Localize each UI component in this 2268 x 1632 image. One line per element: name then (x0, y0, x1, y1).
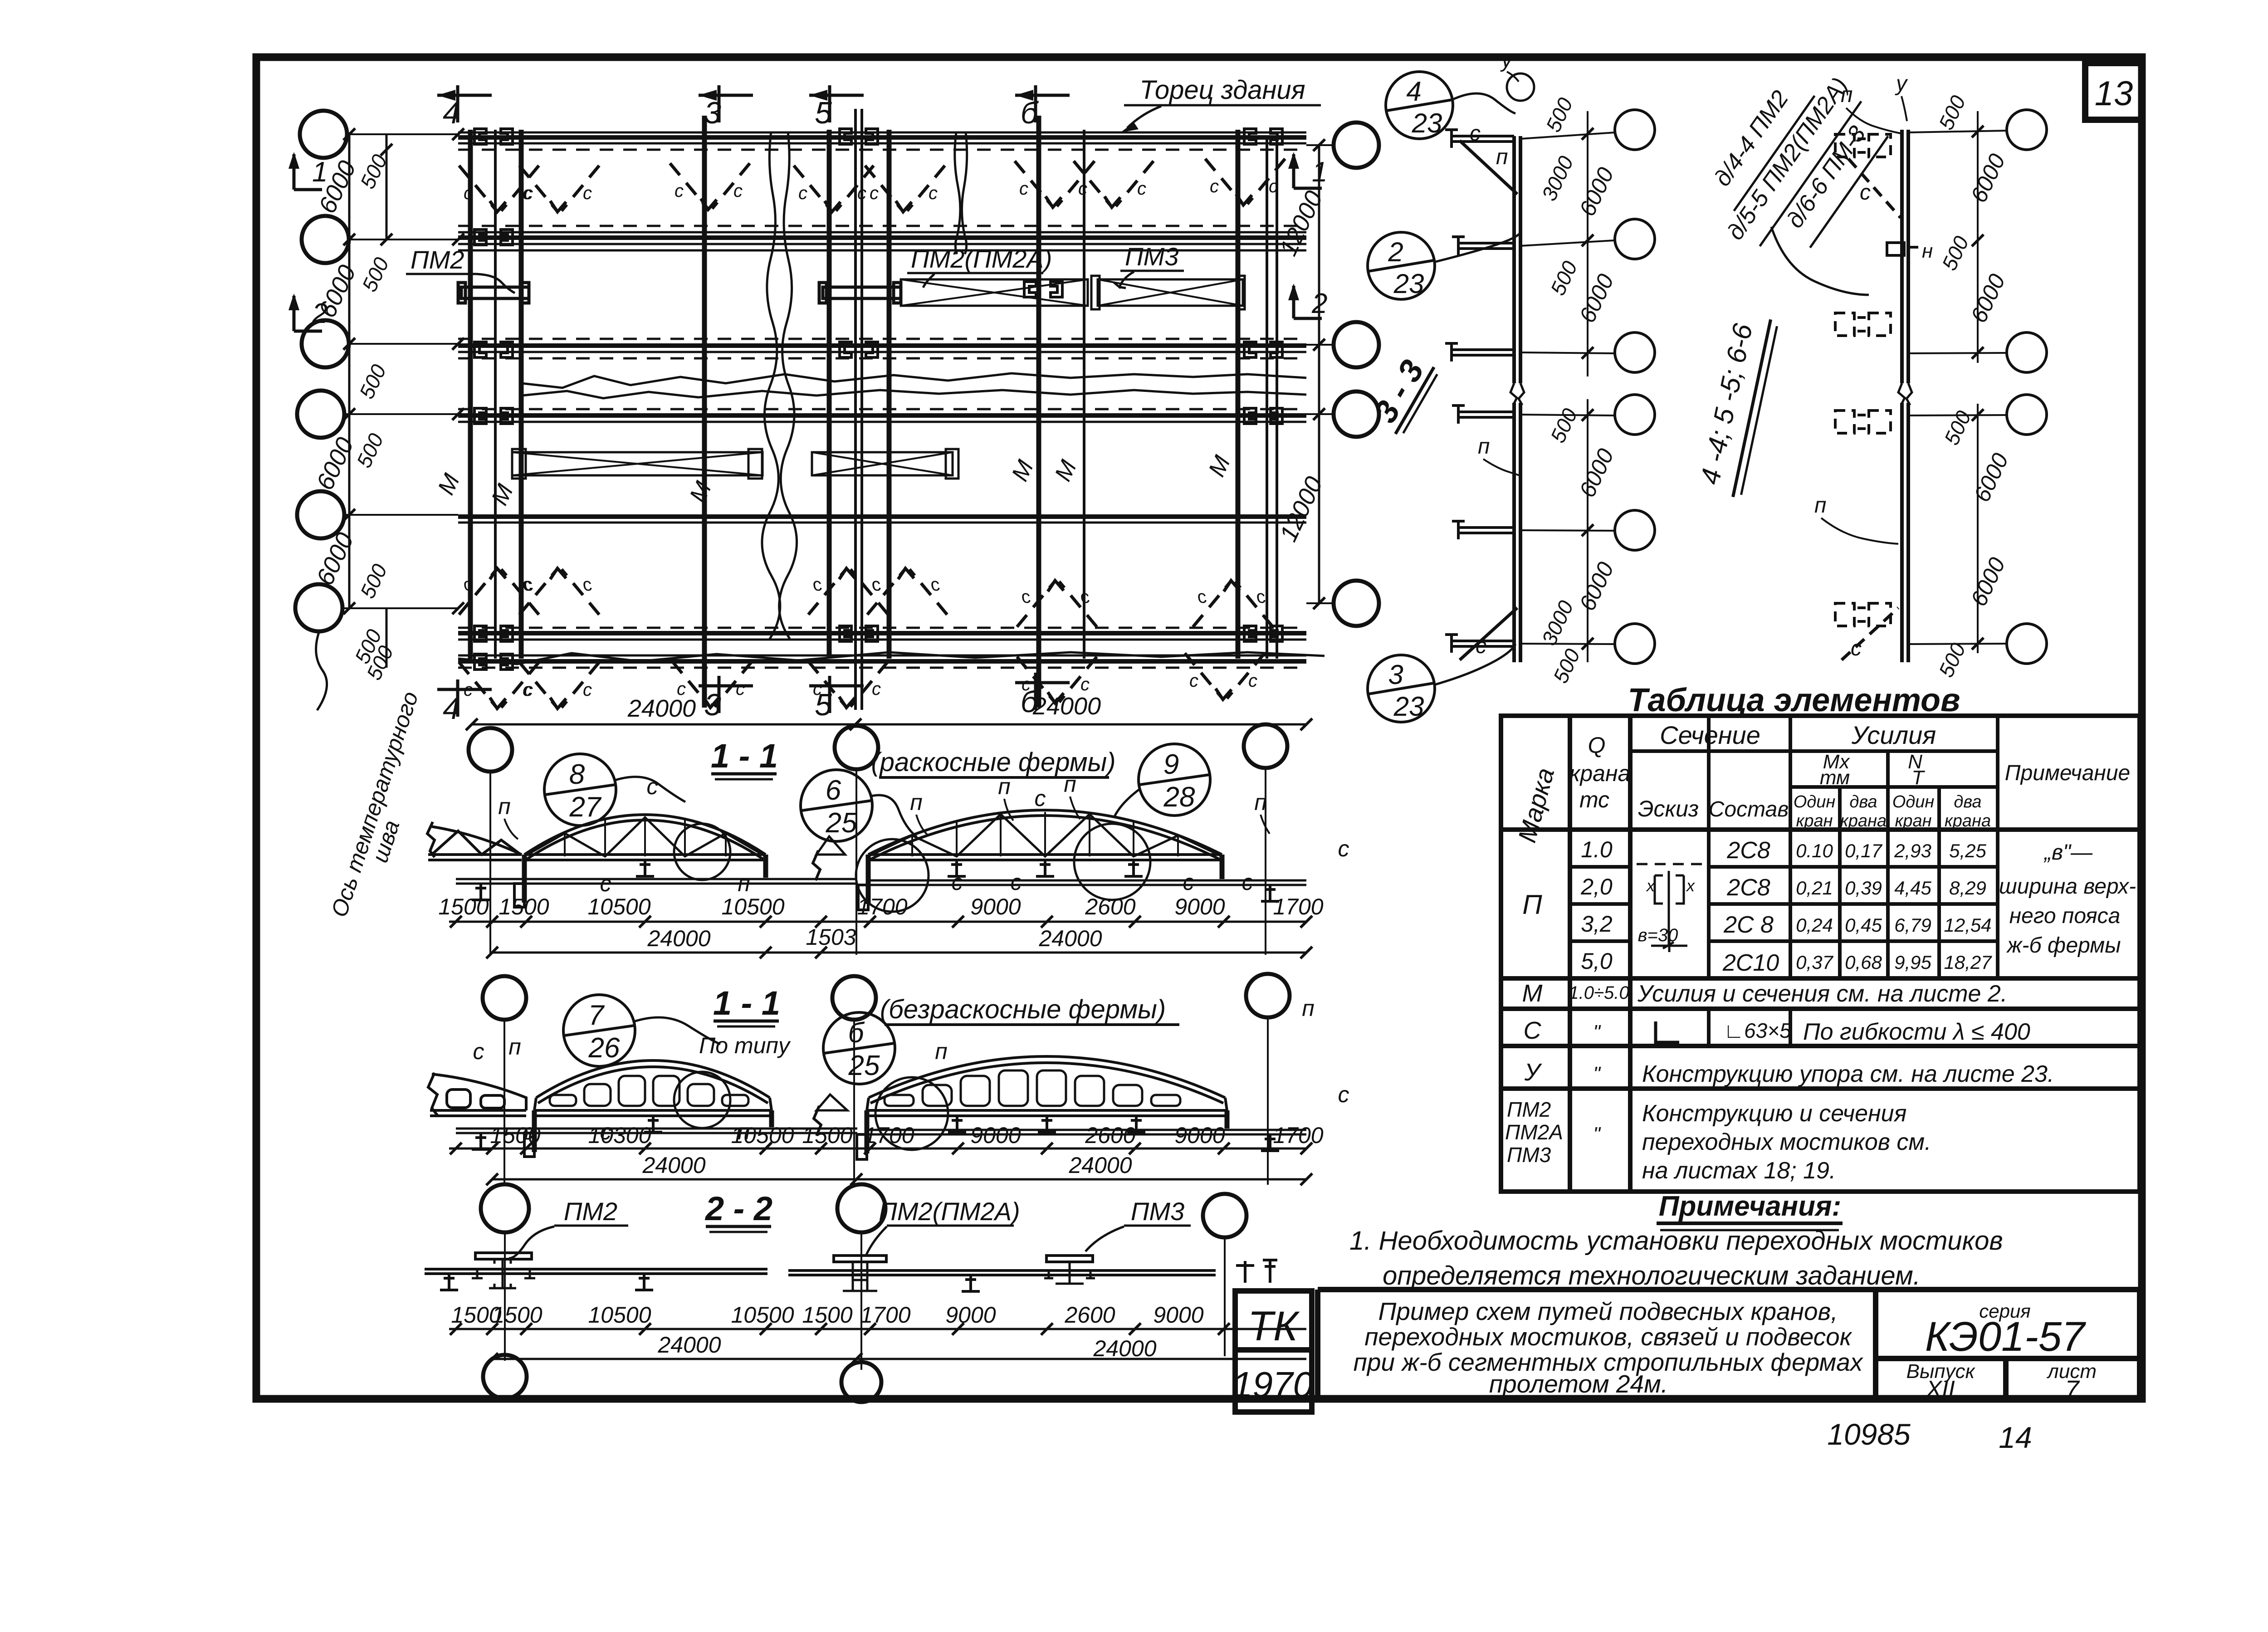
svg-text:2С 8: 2С 8 (1723, 912, 1774, 938)
svg-text:с: с (473, 1039, 484, 1064)
svg-text:п: п (1064, 772, 1076, 797)
svg-text:Конструкцию упора см. на листе: Конструкцию упора см. на листе 23. (1642, 1061, 2054, 1087)
svg-text:2: 2 (1388, 237, 1403, 267)
svg-text:4,45: 4,45 (1894, 877, 1931, 899)
svg-text:крана: крана (1569, 761, 1631, 786)
svg-text:ПМ2: ПМ2 (411, 245, 464, 274)
svg-text:28: 28 (1163, 782, 1195, 813)
svg-text:10500: 10500 (731, 1302, 794, 1328)
svg-text:б: б (848, 1017, 865, 1049)
svg-text:2С8: 2С8 (1726, 875, 1770, 901)
svg-text:1500: 1500 (802, 1302, 852, 1328)
svg-text:2,93: 2,93 (1894, 840, 1931, 861)
svg-text:ПМ3: ПМ3 (1131, 1197, 1184, 1226)
svg-text:9000: 9000 (970, 894, 1021, 919)
svg-text:с: с (1851, 636, 1862, 660)
svg-text:Примечание: Примечание (2005, 761, 2130, 785)
svg-text:п: п (498, 794, 511, 819)
svg-text:1.0÷5.0: 1.0÷5.0 (1569, 983, 1629, 1003)
svg-text:6: 6 (826, 775, 841, 806)
svg-text:с: с (1183, 870, 1194, 895)
svg-text:х: х (1646, 876, 1656, 895)
svg-text:два: два (1954, 792, 1981, 811)
svg-text:10500: 10500 (587, 894, 650, 919)
svg-text:Примечания:: Примечания: (1659, 1191, 1841, 1222)
svg-text:13: 13 (2095, 74, 2133, 113)
svg-text:п: п (1302, 996, 1315, 1021)
svg-text:9: 9 (1163, 749, 1179, 780)
svg-text:пролетом 24м.: пролетом 24м. (1489, 1370, 1668, 1398)
svg-text:Таблица элементов: Таблица элементов (1628, 682, 1960, 718)
svg-text:с: с (1011, 870, 1022, 895)
svg-text:с: с (1242, 870, 1253, 895)
svg-text:тс: тс (1579, 787, 1609, 812)
svg-text:с: с (1860, 181, 1871, 205)
svg-text:Q: Q (1588, 733, 1606, 758)
svg-text:24000: 24000 (1093, 1336, 1156, 1361)
svg-text:п: п (1254, 790, 1267, 815)
svg-text:2600: 2600 (1085, 1123, 1135, 1148)
svg-text:3: 3 (704, 96, 721, 130)
svg-text:у: у (1500, 48, 1514, 72)
svg-text:∟63×5: ∟63×5 (1724, 1019, 1791, 1042)
svg-text:1500: 1500 (438, 894, 489, 919)
svg-text:2С8: 2С8 (1726, 837, 1770, 864)
svg-text:ТК: ТК (1248, 1303, 1300, 1349)
svg-text:тм: тм (1820, 767, 1850, 789)
svg-text:н: н (1922, 240, 1933, 262)
svg-text:1503: 1503 (806, 924, 856, 950)
svg-text:ПМ2А: ПМ2А (1505, 1120, 1563, 1144)
svg-text:ПМ2(ПМ2А): ПМ2(ПМ2А) (879, 1197, 1020, 1226)
svg-text:б: б (1021, 96, 1039, 130)
svg-text:2С10: 2С10 (1722, 950, 1779, 976)
svg-text:Эскиз: Эскиз (1638, 796, 1699, 821)
svg-text:9000: 9000 (1174, 1123, 1225, 1148)
svg-text:0,45: 0,45 (1845, 914, 1882, 936)
svg-text:0,37: 0,37 (1796, 952, 1833, 973)
svg-text:0,17: 0,17 (1845, 840, 1882, 861)
svg-text:По гибкости λ ≤ 400: По гибкости λ ≤ 400 (1803, 1019, 2030, 1045)
svg-text:4: 4 (1406, 76, 1421, 107)
svg-text:7: 7 (2065, 1375, 2080, 1403)
svg-text:определяется технологическим: определяется технологическим заданием. (1383, 1261, 1921, 1290)
svg-text:1700: 1700 (1273, 1123, 1323, 1148)
svg-text:": " (1593, 1021, 1601, 1043)
svg-text:Один: Один (1892, 792, 1935, 811)
svg-text:5: 5 (815, 96, 832, 130)
svg-text:1.0: 1.0 (1581, 837, 1613, 862)
svg-text:7: 7 (588, 1000, 605, 1031)
svg-text:25: 25 (826, 807, 857, 839)
svg-text:Сечение: Сечение (1660, 721, 1760, 749)
svg-text:24000: 24000 (1038, 926, 1102, 951)
svg-text:с: с (1035, 786, 1046, 811)
svg-text:10985: 10985 (1827, 1417, 1911, 1451)
svg-text:24000: 24000 (642, 1153, 705, 1178)
svg-text:1500: 1500 (802, 1123, 852, 1148)
svg-text:п: п (998, 774, 1011, 799)
svg-text:с: с (647, 774, 658, 799)
svg-text:8,29: 8,29 (1949, 877, 1986, 899)
svg-text:крана: крана (1840, 811, 1887, 831)
svg-text:П: П (1522, 889, 1542, 920)
svg-text:9000: 9000 (945, 1302, 996, 1328)
svg-text:10500: 10500 (731, 1123, 794, 1148)
svg-text:1700: 1700 (857, 894, 907, 919)
svg-text:2,0: 2,0 (1580, 874, 1613, 899)
svg-text:с: с (1470, 122, 1481, 146)
svg-text:ширина верх-: ширина верх- (1999, 875, 2136, 899)
svg-text:3: 3 (1388, 660, 1403, 690)
svg-text:с: с (1338, 1082, 1349, 1107)
svg-text:1 - 1: 1 - 1 (713, 984, 780, 1022)
svg-text:с: с (1338, 836, 1349, 861)
svg-text:3,2: 3,2 (1581, 911, 1613, 937)
svg-text:": " (1593, 1063, 1601, 1085)
svg-text:Торец здания: Торец здания (1139, 75, 1305, 105)
svg-text:9000: 9000 (1153, 1302, 1203, 1328)
svg-text:1500: 1500 (499, 894, 549, 919)
svg-text:У: У (1524, 1059, 1542, 1086)
svg-text:Состав: Состав (1709, 797, 1789, 821)
svg-text:26: 26 (588, 1032, 620, 1064)
svg-text:(раскосные фермы): (раскосные фермы) (871, 748, 1115, 777)
svg-text:4: 4 (443, 96, 460, 130)
svg-text:1700: 1700 (1273, 894, 1323, 919)
svg-text:х: х (1686, 876, 1696, 895)
svg-text:него пояса: него пояса (2009, 904, 2121, 928)
svg-text:Усилия: Усилия (1851, 721, 1936, 749)
svg-text:Один: Один (1794, 792, 1836, 811)
svg-text:9,95: 9,95 (1894, 952, 1931, 973)
svg-text:„в"—: „в"— (2043, 840, 2093, 865)
svg-text:переходных мостиков см.: переходных мостиков см. (1642, 1129, 1931, 1155)
svg-text:23: 23 (1393, 269, 1424, 299)
svg-text:": " (1593, 1123, 1601, 1145)
svg-text:переходных мостиков, связей: переходных мостиков, связей и подвесок (1364, 1323, 1852, 1351)
svg-text:10500: 10500 (721, 894, 784, 919)
svg-text:п: п (910, 790, 923, 815)
svg-text:п: п (1496, 145, 1508, 169)
svg-text:1. Необходимость установки: 1. Необходимость установки переходных мо… (1349, 1226, 2003, 1256)
svg-text:ПМ2: ПМ2 (1507, 1098, 1551, 1121)
svg-text:2600: 2600 (1064, 1302, 1115, 1328)
svg-text:0,39: 0,39 (1845, 877, 1882, 899)
svg-text:24000: 24000 (1032, 693, 1101, 720)
svg-text:1700: 1700 (864, 1123, 914, 1148)
svg-text:23: 23 (1412, 108, 1442, 138)
svg-text:25: 25 (848, 1050, 880, 1081)
svg-text:Конструкцию и сечения: Конструкцию и сечения (1642, 1100, 1906, 1127)
svg-text:0,24: 0,24 (1796, 914, 1833, 936)
svg-text:0,68: 0,68 (1845, 952, 1882, 973)
svg-text:п: п (1478, 435, 1490, 459)
svg-text:5,25: 5,25 (1949, 840, 1986, 861)
svg-text:2600: 2600 (1085, 894, 1135, 919)
svg-text:23: 23 (1393, 691, 1424, 722)
svg-text:(безраскосные фермы): (безраскосные фермы) (880, 995, 1166, 1024)
svg-text:п: п (508, 1034, 521, 1060)
svg-text:на листах 18; 19.: на листах 18; 19. (1642, 1158, 1836, 1184)
svg-text:два: два (1849, 792, 1877, 811)
svg-text:1700: 1700 (860, 1302, 910, 1328)
svg-text:ПМ2: ПМ2 (564, 1197, 617, 1226)
svg-text:10500: 10500 (588, 1302, 651, 1328)
svg-text:9000: 9000 (970, 1123, 1021, 1148)
svg-text:п: п (1814, 494, 1826, 518)
svg-text:у: у (1895, 72, 1908, 96)
svg-text:9000: 9000 (1174, 894, 1225, 919)
svg-text:КЭ01-57: КЭ01-57 (1925, 1314, 2086, 1360)
svg-text:кран: кран (1895, 811, 1931, 831)
svg-text:кран: кран (1796, 811, 1833, 831)
svg-text:1500: 1500 (492, 1302, 542, 1328)
svg-text:Пример схем путей подвесных: Пример схем путей подвесных кранов, (1378, 1297, 1838, 1325)
svg-text:24000: 24000 (657, 1332, 721, 1358)
svg-text:ж-б фермы: ж-б фермы (2006, 933, 2121, 958)
svg-text:крана: крана (1945, 811, 1991, 831)
svg-text:24000: 24000 (647, 926, 710, 951)
svg-text:1 - 1: 1 - 1 (711, 737, 778, 775)
svg-text:с: с (1476, 634, 1486, 658)
svg-text:п: п (935, 1039, 948, 1064)
svg-text:М: М (1522, 980, 1543, 1007)
svg-text:6,79: 6,79 (1894, 914, 1931, 936)
svg-text:По типу: По типу (699, 1033, 791, 1058)
svg-text:5,0: 5,0 (1581, 948, 1613, 974)
svg-text:п: п (1841, 83, 1853, 107)
svg-text:1970: 1970 (1232, 1364, 1313, 1405)
svg-text:24000: 24000 (1068, 1153, 1132, 1178)
svg-text:24000: 24000 (627, 695, 696, 722)
svg-text:0.10: 0.10 (1796, 840, 1833, 861)
svg-text:18,27: 18,27 (1944, 952, 1992, 973)
svg-text:XII: XII (1926, 1376, 1955, 1402)
svg-text:27: 27 (569, 792, 602, 823)
svg-text:С: С (1524, 1017, 1542, 1044)
svg-text:14: 14 (1999, 1421, 2032, 1454)
svg-text:ПМ2(ПМ2А): ПМ2(ПМ2А) (911, 244, 1052, 273)
svg-text:12,54: 12,54 (1944, 914, 1991, 936)
svg-text:Усилия и сечения см. на листе: Усилия и сечения см. на листе 2. (1637, 981, 2007, 1007)
svg-text:1500: 1500 (490, 1123, 540, 1148)
svg-text:10300: 10300 (588, 1123, 651, 1148)
svg-text:4: 4 (443, 691, 460, 726)
svg-text:8: 8 (569, 759, 585, 790)
svg-text:Т: Т (1912, 767, 1926, 789)
svg-text:в=30: в=30 (1638, 925, 1678, 945)
svg-text:ПМ3: ПМ3 (1507, 1143, 1551, 1167)
svg-text:ПМ3: ПМ3 (1125, 242, 1178, 271)
svg-text:0,21: 0,21 (1796, 877, 1833, 899)
svg-text:2 - 2: 2 - 2 (704, 1190, 772, 1227)
